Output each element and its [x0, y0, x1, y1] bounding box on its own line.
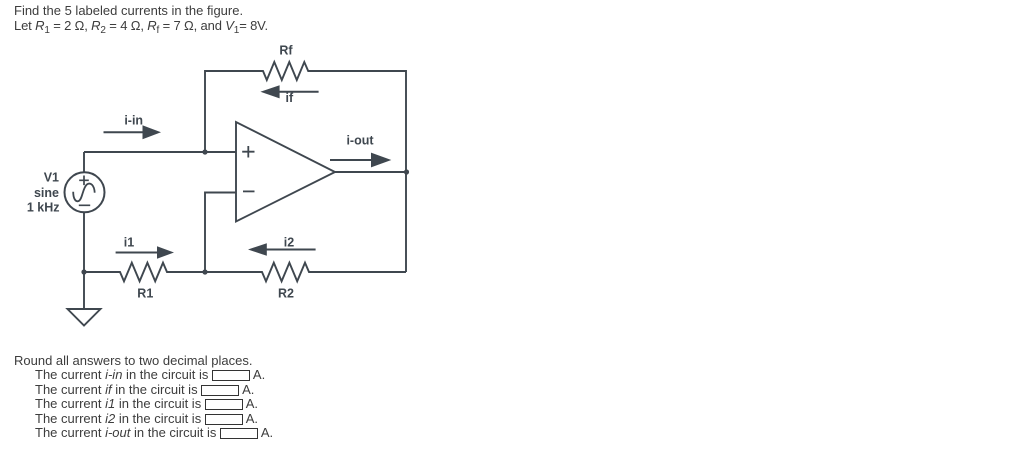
svg-text:1 kHz: 1 kHz	[27, 201, 60, 215]
svg-text:R2: R2	[278, 287, 294, 301]
svg-text:V1: V1	[44, 171, 59, 185]
svg-text:i-in: i-in	[124, 114, 143, 128]
svg-text:if: if	[286, 91, 294, 105]
svg-text:Rf: Rf	[279, 44, 293, 58]
svg-text:sine: sine	[34, 186, 59, 200]
svg-text:R1: R1	[137, 287, 153, 301]
svg-text:i2: i2	[284, 235, 294, 249]
svg-text:i-out: i-out	[346, 134, 374, 148]
svg-text:i1: i1	[124, 235, 134, 249]
